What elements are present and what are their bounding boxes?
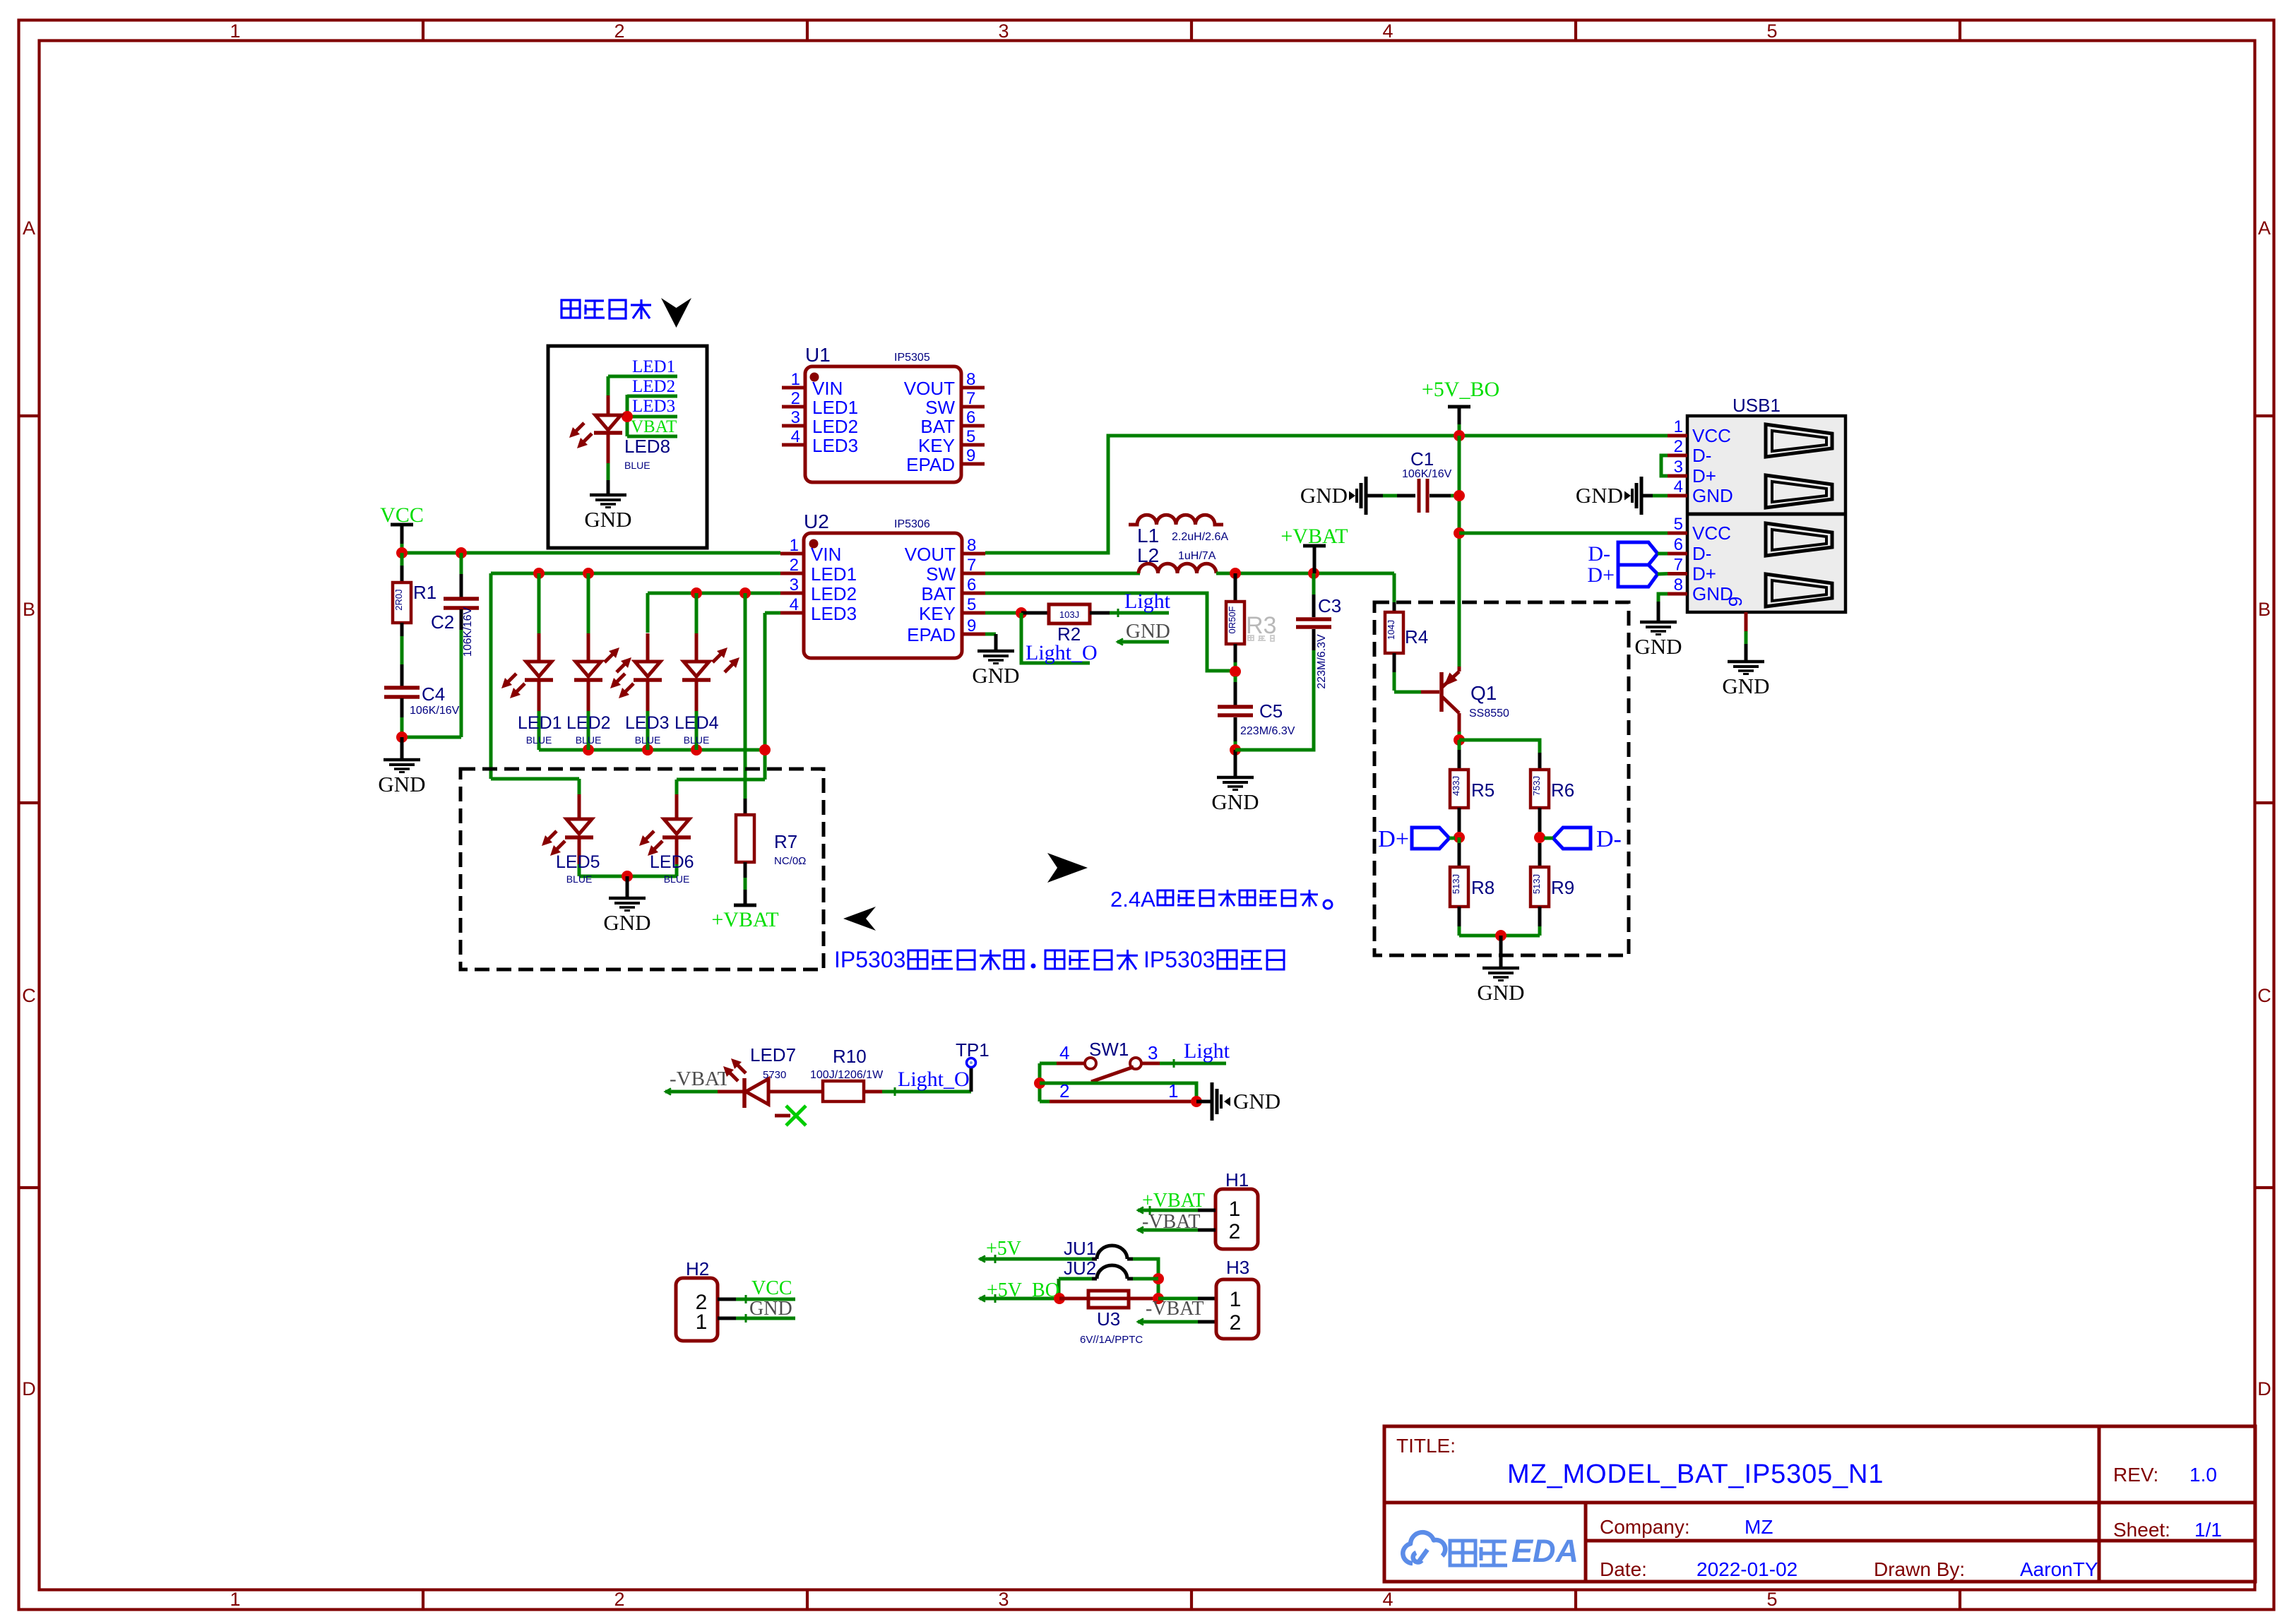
wire C2 bottom — [460, 630, 463, 737]
resistor R1 — [400, 553, 404, 566]
svg-text:GND: GND — [1300, 483, 1348, 508]
svg-text:LED1: LED1 — [812, 397, 858, 418]
node USB VCC2 tap — [1454, 527, 1465, 539]
svg-text:LED3: LED3 — [625, 713, 670, 733]
svg-text:2R0J: 2R0J — [393, 589, 404, 610]
inductor L2 — [1139, 563, 1216, 573]
wire LED1 net stub — [608, 375, 677, 378]
wire -VBAT stub — [665, 1090, 718, 1094]
svg-text:2.4A: 2.4A — [1110, 887, 1155, 912]
ground GND in box — [607, 480, 610, 494]
svg-text:BLUE: BLUE — [576, 734, 602, 746]
wire R7 drop — [744, 593, 747, 799]
wire LED5 anode feed — [491, 777, 579, 781]
svg-text:3: 3 — [998, 20, 1009, 42]
svg-text:+5V_BO: +5V_BO — [1422, 378, 1499, 401]
svg-text:3: 3 — [791, 408, 800, 427]
svg-text:A: A — [23, 217, 35, 239]
svg-text:BLUE: BLUE — [635, 734, 661, 746]
svg-text:GND: GND — [749, 1298, 792, 1320]
wire collector bus — [1459, 740, 1540, 753]
wire after L2 — [1216, 572, 1394, 575]
resistor R3 (grey/optional) — [1234, 573, 1237, 602]
svg-text:SW: SW — [926, 563, 956, 585]
svg-text:AaronTY: AaronTY — [2020, 1558, 2098, 1580]
wire cathode bus — [539, 748, 765, 752]
svg-text:BAT: BAT — [920, 416, 955, 437]
svg-text:GND: GND — [972, 663, 1019, 688]
wire JU2 row — [1133, 1277, 1158, 1281]
wire Light_O to TP1 — [882, 1090, 971, 1094]
svg-text:C: C — [22, 985, 36, 1006]
svg-text:D: D — [22, 1378, 36, 1399]
svg-text:D-: D- — [1596, 826, 1622, 852]
svg-text:C: C — [2257, 985, 2271, 1006]
svg-text:7: 7 — [1674, 556, 1683, 575]
wire VCC bus — [402, 551, 780, 555]
U1 pin 1 — [782, 386, 805, 390]
node D- tap — [1534, 832, 1545, 843]
wire USB pin9 to ground — [1745, 631, 1748, 644]
svg-text:3: 3 — [998, 1589, 1009, 1610]
node LED2 anode — [583, 568, 594, 579]
svg-text:-VBAT: -VBAT — [670, 1068, 730, 1090]
U2 pin 9 — [962, 633, 985, 636]
H2 pin 1 wire — [718, 1317, 736, 1320]
svg-text:6: 6 — [1674, 535, 1683, 554]
node fuse left — [1054, 1293, 1065, 1304]
U2 pin 4 — [780, 611, 804, 615]
LED LED6 — [675, 794, 679, 819]
ground flag GND at SW1 — [1196, 1100, 1212, 1104]
U1 pin 8 — [961, 386, 985, 390]
wire C5 to C3 — [1235, 650, 1314, 750]
svg-text:H3: H3 — [1226, 1257, 1249, 1278]
svg-text:GND: GND — [1576, 483, 1623, 508]
svg-text:D-: D- — [1692, 445, 1711, 466]
svg-text:D: D — [2257, 1378, 2271, 1399]
U2 pin 1 — [780, 552, 804, 556]
svg-text:L2: L2 — [1137, 544, 1159, 566]
svg-text:Sheet:: Sheet: — [2113, 1519, 2170, 1541]
svg-text:LED2: LED2 — [811, 583, 857, 604]
svg-text:VCC: VCC — [751, 1277, 792, 1299]
node +VBAT tap — [1308, 568, 1319, 579]
svg-text:104J: 104J — [1386, 620, 1396, 640]
svg-text:JU1: JU1 — [1064, 1238, 1096, 1259]
svg-text:2022-01-02: 2022-01-02 — [1696, 1558, 1797, 1580]
svg-text:8: 8 — [1674, 575, 1683, 595]
wire EPAD to ground — [985, 633, 996, 636]
svg-text:GND: GND — [1211, 789, 1259, 814]
LED LED1 — [537, 573, 541, 633]
U1 pin 4 — [782, 443, 805, 447]
svg-text:U1: U1 — [805, 344, 831, 366]
U1 pin 7 — [961, 405, 985, 409]
wire LED8 cathode — [607, 463, 610, 480]
node SW1 left — [1034, 1077, 1045, 1089]
resistor R5 — [1458, 740, 1461, 750]
USB1 pin 8 — [1668, 592, 1687, 596]
wire bottom join — [1459, 934, 1540, 938]
svg-text:KEY: KEY — [918, 435, 955, 456]
svg-text:VCC: VCC — [1692, 425, 1731, 446]
svg-text:LED3: LED3 — [812, 435, 858, 456]
SW1 pins 2-1 bar — [1040, 1100, 1050, 1104]
svg-text:MZ: MZ — [1745, 1516, 1773, 1538]
svg-text:BLUE: BLUE — [526, 734, 552, 746]
svg-text:106K/16V: 106K/16V — [1402, 468, 1452, 480]
svg-text:+5V: +5V — [986, 1238, 1021, 1260]
svg-text:6: 6 — [966, 408, 975, 427]
svg-text:2: 2 — [614, 20, 624, 42]
LED LED4 — [695, 593, 699, 633]
ground GND left — [400, 737, 404, 760]
svg-text:1: 1 — [1229, 1198, 1241, 1221]
svg-text:VIN: VIN — [811, 544, 841, 565]
node ground join — [1495, 930, 1506, 941]
node LED4 anode — [691, 587, 702, 599]
svg-text:BLUE: BLUE — [684, 734, 710, 746]
svg-text:C4: C4 — [422, 683, 445, 705]
svg-text:6: 6 — [967, 575, 976, 595]
node cathode join — [642, 744, 653, 756]
svg-text:4: 4 — [1382, 1589, 1393, 1610]
annotation text 单灯方案 — [561, 300, 580, 318]
svg-text:103J: 103J — [1059, 609, 1079, 620]
USB contact icons — [1766, 424, 1832, 457]
svg-text:GND: GND — [378, 772, 425, 796]
USB1 pin 1 — [1668, 434, 1687, 438]
svg-text:513J: 513J — [1531, 874, 1542, 894]
USB1 pin 7 — [1668, 572, 1687, 575]
svg-text:NC/0Ω: NC/0Ω — [774, 855, 806, 867]
svg-text:753J: 753J — [1531, 776, 1542, 796]
svg-text:U2: U2 — [804, 511, 829, 532]
svg-text:R7: R7 — [774, 831, 797, 852]
wire VBAT net stub — [627, 435, 677, 438]
svg-text:D+: D+ — [1378, 826, 1409, 852]
node R7 tap — [739, 587, 751, 599]
U2 pin 5 — [962, 611, 985, 615]
svg-text:IP5303: IP5303 — [1143, 947, 1215, 972]
U1 pin 5 — [961, 443, 985, 447]
resistor R2 — [1021, 611, 1049, 615]
wire after JU1 — [1133, 1259, 1158, 1298]
test point TP1 — [970, 1068, 973, 1092]
svg-text:MZ_MODEL_BAT_IP5305_N1: MZ_MODEL_BAT_IP5305_N1 — [1507, 1459, 1884, 1489]
node C1 join — [1454, 490, 1465, 501]
LED LED7 — [718, 1090, 744, 1094]
svg-text:VIN: VIN — [812, 378, 843, 399]
svg-text:GND: GND — [1634, 634, 1682, 659]
svg-text:2: 2 — [1230, 1311, 1242, 1335]
wire to H3 pin1 — [1158, 1297, 1198, 1301]
svg-text:2: 2 — [614, 1589, 624, 1610]
svg-text:IP5303: IP5303 — [834, 947, 905, 972]
node C5 bottom — [1230, 744, 1241, 756]
wire Light net — [1110, 611, 1169, 615]
svg-text:513J: 513J — [1451, 874, 1461, 894]
svg-text:A: A — [2258, 217, 2271, 239]
USB1 pin 2 — [1668, 454, 1687, 458]
wire LED3 net stub — [627, 415, 677, 419]
switch SW1 — [1040, 1062, 1057, 1065]
dashed box IP5303 indicator circuit — [460, 769, 824, 969]
svg-text:5: 5 — [1766, 20, 1777, 42]
svg-text:SW: SW — [925, 397, 955, 418]
svg-text:-VBAT: -VBAT — [1146, 1298, 1204, 1320]
svg-text:LED7: LED7 — [750, 1044, 796, 1065]
svg-text:2.2uH/2.6A: 2.2uH/2.6A — [1172, 531, 1228, 543]
U1 pin 2 — [782, 405, 805, 409]
svg-text:9: 9 — [966, 446, 975, 465]
svg-text:REV:: REV: — [2113, 1464, 2158, 1486]
ground GND under C5 — [1234, 750, 1237, 777]
svg-text:BLUE: BLUE — [624, 460, 650, 471]
USB1 pin 9 — [1745, 612, 1748, 631]
svg-text:5: 5 — [967, 595, 976, 614]
ground flag GND at USB pin4 — [1641, 494, 1653, 498]
svg-text:C3: C3 — [1318, 595, 1341, 616]
svg-text:Light: Light — [1184, 1039, 1230, 1063]
svg-text:4: 4 — [790, 595, 799, 614]
node +5V_BO join — [1454, 430, 1465, 441]
wire SW1 left vertical — [1038, 1063, 1042, 1101]
wire LED1 row (U2 pin2) — [491, 572, 780, 575]
svg-text:TITLE:: TITLE: — [1396, 1435, 1456, 1457]
node fuse right — [1153, 1293, 1164, 1304]
svg-text:U3: U3 — [1097, 1308, 1120, 1330]
resistor R10 — [823, 1081, 864, 1101]
transistor Q1 SS8550 — [1439, 672, 1444, 712]
svg-text:LED3: LED3 — [811, 603, 857, 624]
svg-text:R9: R9 — [1551, 877, 1574, 898]
svg-text:VBAT: VBAT — [631, 417, 677, 436]
svg-text:9: 9 — [1725, 597, 1746, 607]
svg-text:1/1: 1/1 — [2194, 1519, 2222, 1541]
black marker arrow left — [843, 907, 876, 931]
node C2 tap — [456, 547, 467, 559]
wire to Q1 base — [1394, 691, 1421, 694]
logo 立创EDA — [1403, 1532, 1445, 1563]
node R3 tap — [1230, 568, 1241, 579]
capacitor C2 — [460, 553, 463, 574]
wire to USB pin5 — [1459, 532, 1668, 535]
black marker arrow down — [661, 298, 691, 328]
svg-text:LED8: LED8 — [624, 436, 670, 457]
svg-text:1: 1 — [1168, 1080, 1178, 1101]
svg-text:GND: GND — [1692, 485, 1733, 506]
svg-text:EPAD: EPAD — [906, 454, 955, 475]
svg-text:D+: D+ — [1692, 465, 1716, 486]
U1 pin 3 — [782, 424, 805, 428]
svg-text:1: 1 — [1674, 417, 1683, 436]
svg-text:223M/6.3V: 223M/6.3V — [1316, 634, 1328, 689]
node collector join — [1454, 734, 1465, 746]
svg-text:+VBAT: +VBAT — [711, 908, 778, 931]
svg-text:B: B — [23, 599, 35, 620]
svg-text:2: 2 — [791, 389, 800, 408]
svg-text:USB1: USB1 — [1733, 395, 1781, 416]
wire VOUT up and over — [985, 436, 1668, 553]
svg-text:LED2: LED2 — [812, 416, 858, 437]
svg-text:1: 1 — [1230, 1288, 1242, 1311]
wire +VBAT to R4 — [1393, 573, 1396, 602]
svg-text:100J/1206/1W: 100J/1206/1W — [810, 1069, 884, 1081]
wire D-/D+ loop (port1) — [1661, 455, 1668, 476]
resistor R6 — [1538, 753, 1542, 770]
wire LED2 net stub — [627, 395, 677, 398]
wire USB pin8 to ground — [1658, 594, 1668, 602]
inductor L1 (floating) — [1129, 515, 1223, 525]
USB1 pin 3 — [1668, 474, 1687, 478]
svg-text:IP5305: IP5305 — [894, 352, 930, 364]
wire BAT row — [985, 593, 1235, 671]
svg-text:4: 4 — [1674, 477, 1683, 496]
svg-text:Light: Light — [1124, 590, 1171, 613]
svg-text:LED1: LED1 — [518, 713, 562, 733]
U2 pin 6 — [962, 592, 985, 595]
resistor R7 — [744, 799, 747, 815]
svg-text:GND: GND — [1722, 674, 1769, 698]
svg-text:R4: R4 — [1405, 626, 1428, 647]
svg-text:R5: R5 — [1471, 780, 1494, 801]
wire LED3 row (U2 pin4) — [765, 611, 780, 615]
svg-text:3: 3 — [790, 575, 799, 595]
svg-text:2: 2 — [1674, 437, 1683, 456]
fuse U3 — [1059, 1297, 1158, 1301]
ground GND LED5/6 — [626, 876, 629, 897]
wire LED2 row (U2 pin3) — [648, 592, 780, 595]
node bus to LED6 feed — [759, 744, 771, 756]
svg-text:+VBAT: +VBAT — [1142, 1190, 1205, 1212]
svg-text:SS8550: SS8550 — [1469, 707, 1509, 720]
title block — [1384, 1426, 2255, 1582]
svg-text:6V//1A/PPTC: 6V//1A/PPTC — [1080, 1334, 1143, 1346]
capacitor C4 — [384, 686, 420, 690]
svg-text:5: 5 — [1766, 1589, 1777, 1610]
U2 pin 8 — [962, 552, 985, 556]
svg-text:LED4: LED4 — [674, 713, 719, 733]
svg-text:VOUT: VOUT — [904, 378, 955, 399]
power flag +VBAT under R7 — [734, 904, 756, 907]
svg-text:3: 3 — [1148, 1042, 1158, 1063]
resistor R9 — [1538, 843, 1542, 867]
svg-text:KEY: KEY — [919, 603, 956, 624]
svg-text:C2: C2 — [431, 611, 454, 633]
svg-text:106K/16V: 106K/16V — [462, 607, 474, 657]
svg-text:GND: GND — [1477, 980, 1524, 1005]
svg-text:C5: C5 — [1259, 700, 1283, 722]
wire Light_O stub — [1021, 613, 1090, 663]
wire +5V_BO vertical — [1458, 436, 1461, 667]
svg-text:5: 5 — [1674, 515, 1683, 534]
node LED1 anode — [533, 568, 545, 579]
wire LED6 anode feed — [677, 778, 765, 782]
svg-text:1: 1 — [696, 1310, 708, 1334]
svg-text:LED1: LED1 — [632, 357, 675, 376]
wire left drop to LED5 — [489, 573, 493, 779]
resistor R8 — [1458, 837, 1461, 843]
svg-text:-VBAT: -VBAT — [1142, 1211, 1200, 1233]
svg-text:GND: GND — [584, 507, 631, 532]
svg-text:TP1: TP1 — [956, 1039, 989, 1061]
svg-text:GND: GND — [1126, 620, 1170, 643]
node VCC/R1 — [396, 547, 408, 559]
svg-text:Light_O: Light_O — [1026, 641, 1098, 664]
svg-text:5730: 5730 — [763, 1069, 786, 1081]
svg-text:2: 2 — [790, 556, 799, 575]
svg-text:JU2: JU2 — [1064, 1258, 1096, 1279]
wire VCC to bus — [400, 544, 404, 553]
svg-text:LED2: LED2 — [632, 377, 675, 396]
no-connect cross — [775, 1114, 790, 1118]
svg-text:Drawn By:: Drawn By: — [1874, 1558, 1965, 1580]
resistor R4 — [1385, 612, 1403, 653]
wire +5V row — [980, 1258, 1092, 1261]
svg-text:BLUE: BLUE — [664, 873, 690, 885]
svg-text:9: 9 — [967, 616, 976, 635]
svg-text:1: 1 — [230, 20, 240, 42]
svg-text:LED6: LED6 — [650, 852, 694, 872]
svg-text:1: 1 — [230, 1589, 240, 1610]
black marker arrow right — [1047, 853, 1088, 883]
ground GND under divider — [1499, 936, 1503, 967]
svg-text:Company:: Company: — [1600, 1516, 1690, 1538]
svg-text:L1: L1 — [1137, 525, 1159, 547]
svg-text:VOUT: VOUT — [905, 544, 956, 565]
svg-text:BAT: BAT — [921, 583, 956, 604]
svg-text:1: 1 — [790, 536, 799, 555]
node SW1 to ground — [1191, 1096, 1202, 1107]
LED8 — [607, 395, 610, 415]
svg-text:LED2: LED2 — [566, 713, 611, 733]
svg-text:2: 2 — [1229, 1220, 1241, 1243]
ground GND pin9 — [1728, 660, 1764, 664]
svg-text:C1: C1 — [1410, 448, 1434, 470]
svg-text:1.0: 1.0 — [2189, 1464, 2217, 1486]
dashed box 2.4A handshake circuit — [1374, 602, 1629, 955]
svg-text:5: 5 — [966, 427, 975, 446]
svg-text:7: 7 — [967, 556, 976, 575]
svg-text:Q1: Q1 — [1470, 682, 1497, 704]
LED LED5 — [578, 794, 581, 819]
svg-text:SW1: SW1 — [1089, 1039, 1129, 1060]
node junction on LED3 net — [622, 411, 633, 422]
svg-text:433J: 433J — [1451, 776, 1461, 796]
svg-text:4: 4 — [1382, 20, 1393, 42]
node cathode join — [583, 744, 594, 756]
node cathode join — [691, 744, 702, 756]
svg-text:Date:: Date: — [1600, 1558, 1647, 1580]
svg-text:2: 2 — [1059, 1080, 1069, 1101]
wire SW row — [985, 572, 1140, 575]
capacitor C3 — [1312, 629, 1316, 650]
node D+ tap — [1454, 832, 1465, 843]
svg-text:1uH/7A: 1uH/7A — [1178, 550, 1216, 562]
U1 pin 6 — [961, 424, 985, 428]
svg-text:D-: D- — [1588, 542, 1610, 566]
capacitor C5 — [1234, 676, 1237, 682]
H1 pin1 wire +VBAT — [1198, 1209, 1216, 1212]
wire KEY row — [985, 611, 1021, 615]
node KEY junction — [1016, 607, 1027, 619]
wire SW1 middle — [1040, 1083, 1196, 1101]
H2 pin 2 wire — [718, 1298, 736, 1301]
USB1 pin 5 — [1668, 532, 1687, 535]
node ground join — [396, 732, 408, 743]
